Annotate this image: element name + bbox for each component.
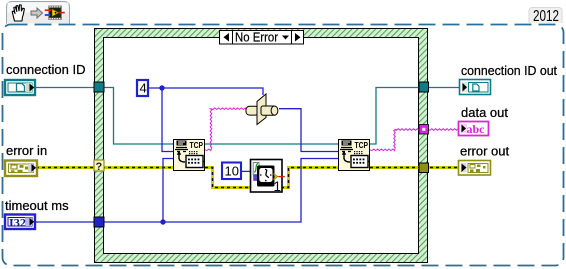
svg-text:abc: abc (467, 122, 486, 136)
tunnel: timeout (94, 217, 104, 227)
svg-text:I32: I32 (9, 215, 26, 229)
connection wire: TCP2 -> up -> conn ID out tunnel -> indicator (370, 88, 459, 145)
TCP Read VI 1 (174, 140, 206, 171)
svg-text:1: 1 (274, 179, 282, 194)
svg-text:4: 4 (140, 81, 147, 96)
connection ID control terminal (5, 80, 35, 95)
error wire: error in -> ? tunnel -> TCP1 (36, 166, 173, 169)
error wire: TCP2 -> error out tunnel -> error out (370, 166, 458, 169)
hand (pan) tool icon (12, 5, 24, 21)
timeout wire: control -> tunnel -> junction -> TCP2 timeout (34, 159, 338, 223)
connection ID out indicator (460, 80, 491, 95)
connection wire: TCP1 -> TCP2 (205, 143, 338, 145)
arrow tool icon (31, 8, 43, 18)
svg-text:data out: data out (461, 105, 508, 120)
junction dot (159, 85, 164, 90)
timeout branch up to TCP1 timeout (163, 159, 173, 223)
svg-text:?: ? (96, 161, 103, 173)
tunnel: connection ID in (94, 82, 104, 92)
string wire: TCP1 data out -> type cast (205, 149, 211, 151)
numeric constant 4 (137, 80, 148, 96)
svg-text:10: 10 (225, 164, 239, 179)
error in control terminal (5, 161, 37, 177)
tunnel: error out (419, 163, 429, 173)
toolbar tab (7, 2, 70, 24)
numeric constant 10 (222, 163, 241, 180)
error wire: TCP1 -> under wait VI -> TCP2 (205, 168, 338, 188)
int wire: type cast output -> TCP2 bytes-to-read (279, 109, 338, 152)
svg-text:2012: 2012 (533, 8, 559, 25)
junction dot (160, 219, 165, 224)
timeout ms control terminal (5, 215, 35, 230)
int wire: 4 const -> junction -> type cast type input (148, 88, 263, 95)
case selector label "No Error" (220, 31, 304, 45)
data out indicator (459, 122, 489, 137)
2012 version tab (529, 8, 562, 24)
svg-text:No Error: No Error (235, 30, 279, 45)
svg-text:connection ID out: connection ID out (461, 63, 557, 78)
Time Delay express VI (251, 160, 283, 193)
svg-text:connection ID: connection ID (6, 62, 86, 77)
error out indicator (459, 161, 491, 176)
tunnel: data out (419, 125, 429, 135)
tunnel: connection ID out (419, 82, 429, 92)
int wire: 10 const -> wait VI (242, 170, 250, 172)
svg-text:error out: error out (460, 144, 510, 159)
string wire: TCP2 data out -> data out tunnel -> indicator (370, 149, 395, 151)
svg-text:timeout ms: timeout ms (5, 198, 69, 213)
svg-text:error in: error in (6, 143, 47, 158)
case selector ? terminal (94, 160, 104, 171)
TCP Read VI 2 (339, 140, 371, 171)
case structure border (green hatched) (95, 29, 428, 263)
VI icon (48, 6, 62, 20)
type cast function (246, 94, 278, 125)
connection ID wire: control -> tunnel -> TCP1 (34, 88, 173, 145)
int wire: junction down to TCP1 bytes-to-read (162, 88, 173, 152)
